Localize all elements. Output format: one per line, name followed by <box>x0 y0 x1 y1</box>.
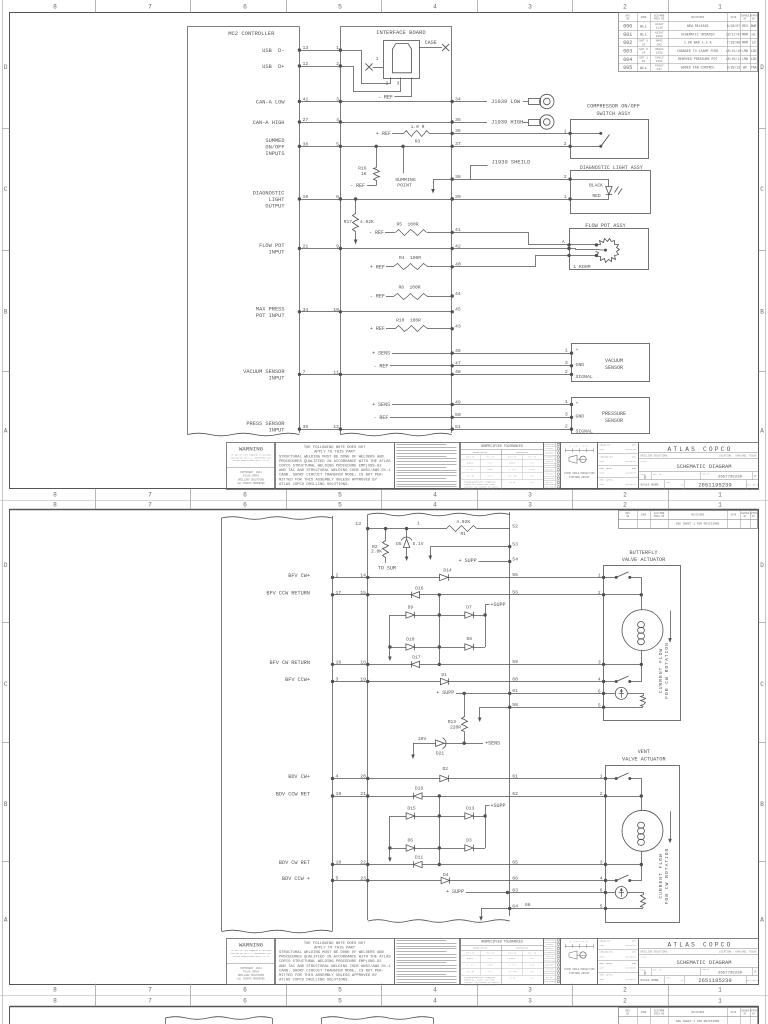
wire to vent pin 3 <box>510 864 606 866</box>
MC2 controller sheet 3 torn box <box>165 1017 273 1024</box>
wire to butterfly pin 5 <box>510 707 604 709</box>
svg-text:B: B <box>4 801 8 808</box>
company title block <box>638 443 758 490</box>
svg-text:.XX .03: .XX .03 <box>508 474 517 477</box>
svg-text:BUTTERFLY: BUTTERFLY <box>629 550 658 556</box>
wire to vent pin 6 <box>510 892 606 894</box>
svg-text:+ REF: + REF <box>370 326 385 332</box>
svg-text:5: 5 <box>338 501 342 508</box>
svg-text:45084: 45084 <box>655 48 664 51</box>
svg-text:NPS: NPS <box>632 455 637 458</box>
svg-text:DWR: DWR <box>751 24 757 28</box>
svg-text:LSD: LSD <box>751 57 757 61</box>
svg-text:ZONE: ZONE <box>641 16 647 19</box>
svg-text:7: 7 <box>148 491 152 498</box>
svg-text:3: 3 <box>336 96 339 102</box>
svg-text:1: 1 <box>565 399 568 405</box>
svg-text:MAX PRESS: MAX PRESS <box>256 306 285 312</box>
svg-text:EXPORT REGULATIONS APPLY TO IT: EXPORT REGULATIONS APPLY TO IT <box>233 459 270 462</box>
svg-text:.X 0.1: .X 0.1 <box>508 964 517 967</box>
svg-text:+ REF: + REF <box>370 264 385 270</box>
revision table sheet 3 <box>619 1008 758 1024</box>
svg-text:10/25/11: 10/25/11 <box>726 57 741 61</box>
characteristic symbols column <box>543 442 561 489</box>
wire MC2 pin 35 to interface pin 12 <box>298 424 342 431</box>
svg-text:SCHEMATIC DIAGRAM: SCHEMATIC DIAGRAM <box>677 960 732 966</box>
svg-text:INPUT: INPUT <box>269 249 285 255</box>
svg-text:R10 100R: R10 100R <box>396 317 421 323</box>
svg-text:1: 1 <box>417 521 420 526</box>
svg-text:APPLY TO THIS PART: APPLY TO THIS PART <box>314 451 356 455</box>
wire pin 2 vent <box>606 794 644 797</box>
wire to butterfly pin 1 <box>510 577 604 579</box>
svg-text:22: 22 <box>360 859 366 865</box>
wire MC2 pin 10 to interface pin 6 <box>298 194 342 201</box>
svg-text:CANB. SHORT CIRCUIT TRANSFER M: CANB. SHORT CIRCUIT TRANSFER MODE, IS NO… <box>279 969 384 973</box>
wire through interface board y=374 <box>340 373 454 376</box>
svg-text:ENG. APPVL.: ENG. APPVL. <box>600 962 614 965</box>
svg-text:DATE: DATE <box>731 1011 737 1014</box>
svg-text:COMPRESSOR ON/OFF: COMPRESSOR ON/OFF <box>587 103 640 109</box>
svg-text:58: 58 <box>512 702 518 708</box>
proprietary statement block <box>395 443 461 490</box>
svg-text:2: 2 <box>336 572 339 578</box>
svg-text:OUTPUT: OUTPUT <box>265 203 284 209</box>
svg-text:7: 7 <box>148 986 152 993</box>
svg-text:J1939 SHEILD: J1939 SHEILD <box>492 160 531 166</box>
svg-text:PROFILE: PROFILE <box>546 461 553 463</box>
svg-text:3: 3 <box>528 3 532 10</box>
svg-text:45: 45 <box>455 307 461 313</box>
svg-text:D7: D7 <box>466 604 472 610</box>
svg-text:2651195239: 2651195239 <box>698 481 732 488</box>
wire J1939 HIGH <box>452 119 523 125</box>
svg-text:P: P <box>755 474 757 478</box>
svg-text:POT INPUT: POT INPUT <box>256 313 285 319</box>
svg-text:INPUT: INPUT <box>269 375 285 381</box>
svg-text:LIGHT: LIGHT <box>269 197 285 203</box>
svg-text:01/03/07: 01/03/07 <box>625 472 636 475</box>
wire through interface board y=146 <box>340 145 454 148</box>
svg-text:ATLAS COPCO: ATLAS COPCO <box>667 942 732 949</box>
diode D6 and D3 row <box>388 837 485 851</box>
svg-text:042: 042 <box>657 43 662 46</box>
switch upper vent <box>606 773 642 797</box>
LED D20 <box>606 179 622 199</box>
wire pin 5 vent <box>606 908 644 910</box>
svg-text:REV: REV <box>742 24 748 28</box>
wire row 48 to vacuum sensor pin 2 <box>452 369 573 376</box>
diode D2 <box>368 766 510 782</box>
diode D11 <box>368 855 510 868</box>
svg-text:5.1V: 5.1V <box>413 541 424 547</box>
svg-text:DIM LIN: DIM LIN <box>466 456 474 459</box>
svg-text:DATE: DATE <box>600 448 606 451</box>
svg-text:FOR CW ROTATION: FOR CW ROTATION <box>664 642 670 699</box>
svg-text:18: 18 <box>360 659 366 665</box>
wire to butterfly pin 6 <box>510 693 604 695</box>
svg-text:CAN-A LOW: CAN-A LOW <box>256 99 285 105</box>
diode D16 <box>368 585 510 598</box>
svg-text:5: 5 <box>338 986 342 993</box>
svg-text:2: 2 <box>598 590 601 596</box>
svg-text:7: 7 <box>148 501 152 508</box>
svg-text:UNSPECIFIED TOLERANCES: UNSPECIFIED TOLERANCES <box>481 444 523 448</box>
svg-text:.X 0.1: .X 0.1 <box>508 468 517 471</box>
svg-text:.XX 0P: .XX 0P <box>508 481 516 484</box>
signature block <box>598 939 639 985</box>
wire flow pot B (row 40) <box>453 254 599 267</box>
flow pot assy box <box>562 223 649 270</box>
vent box <box>600 749 680 922</box>
sheet 3 zone labels top <box>53 995 722 1006</box>
svg-text:MITTED FOR THIS ASSEMBLY UNLES: MITTED FOR THIS ASSEMBLY UNLESS APPROVED… <box>279 478 378 482</box>
current flow label vent <box>658 848 670 905</box>
svg-text:4: 4 <box>598 677 601 683</box>
unspecified tolerances block <box>460 939 544 987</box>
svg-text:LOCATION: GARLAND, TEXAS: LOCATION: GARLAND, TEXAS <box>719 950 757 953</box>
svg-text:LMB: LMB <box>742 49 748 53</box>
+SENS wire row 49 <box>372 402 452 408</box>
svg-text:2: 2 <box>623 986 627 993</box>
diode D18 <box>368 786 510 800</box>
svg-text:SENSOR: SENSOR <box>605 418 623 424</box>
svg-text:WARNING: WARNING <box>239 446 264 453</box>
svg-text:62: 62 <box>512 791 518 797</box>
svg-text:6: 6 <box>336 194 339 200</box>
svg-text:0.06: 0.06 <box>530 964 536 967</box>
page boundary line 2 <box>0 995 768 997</box>
switch upper butterfly <box>604 572 642 595</box>
svg-text:5: 5 <box>338 3 342 10</box>
svg-text:PROJ NO: PROJ NO <box>654 515 665 518</box>
svg-text:- REF: - REF <box>350 183 365 189</box>
svg-text:+ SUPP: + SUPP <box>436 690 454 696</box>
svg-text:CONCENTRICITY: CONCENTRICITY <box>543 973 555 975</box>
motor coil vent <box>622 796 663 865</box>
vertical tie and arrow upper network <box>388 595 485 665</box>
svg-text:FOR CW ROTATION: FOR CW ROTATION <box>664 848 670 905</box>
svg-text:DIM LIN: DIM LIN <box>466 951 474 954</box>
svg-text:8: 8 <box>53 501 57 508</box>
wire MC2 pin 4 to interface pin 20 sheet2 <box>331 773 370 780</box>
third angle projection block <box>561 939 598 985</box>
svg-text:MC2 CONTROLLER: MC2 CONTROLLER <box>228 30 275 37</box>
svg-text:FINISHED WEIGHT: FINISHED WEIGHT <box>569 476 590 479</box>
sheet 2 zone labels top <box>53 500 722 509</box>
resistor R17 4.02K <box>344 197 374 244</box>
svg-text:SHT 1: SHT 1 <box>639 56 648 59</box>
wire row 53 with arrow <box>429 545 512 560</box>
ring terminal J1939 LOW <box>523 94 554 108</box>
svg-text:COPYRIGHT 2014: COPYRIGHT 2014 <box>240 967 262 970</box>
svg-text:047: 047 <box>657 68 662 71</box>
svg-text:DRAWN BY: DRAWN BY <box>600 444 611 447</box>
svg-text:C: C <box>760 186 764 193</box>
svg-text:005: 005 <box>623 65 632 71</box>
svg-text:ALL RIGHTS RESERVED: ALL RIGHTS RESERVED <box>237 978 265 981</box>
svg-text:21: 21 <box>360 791 366 797</box>
interface right edge pins sheet2 upper <box>512 523 518 708</box>
svg-text:1K: 1K <box>361 171 367 177</box>
svg-text:10: 10 <box>333 307 339 313</box>
wire pin 3 butterfly <box>604 663 643 666</box>
svg-text:ANGLE: ANGLE <box>509 461 516 464</box>
+SUPP stub lower network <box>486 803 506 817</box>
svg-text:41287: 41287 <box>655 23 664 26</box>
svg-text:.XX .03: .XX .03 <box>508 970 517 973</box>
svg-text:CURRENT FLOW: CURRENT FLOW <box>658 648 664 693</box>
wire through interface board y=248 <box>340 247 454 250</box>
svg-text:D10: D10 <box>406 637 415 643</box>
svg-text:NEW RELEASE: NEW RELEASE <box>687 24 709 28</box>
ring terminal J1939 HIGH <box>523 115 554 129</box>
svg-text:1298: 1298 <box>656 35 663 38</box>
svg-text:CANB. SHORT CIRCUIT TRANSFER M: CANB. SHORT CIRCUIT TRANSFER MODE, IS NO… <box>279 474 384 478</box>
interface right edge pins sheet2 lower <box>512 773 518 909</box>
svg-text:01/03/07: 01/03/07 <box>625 483 636 486</box>
svg-text:INPUT: INPUT <box>269 427 285 433</box>
svg-text:3: 3 <box>600 860 603 866</box>
svg-text:1: 1 <box>718 501 722 508</box>
svg-text:DRILLING SOLUTIONS: DRILLING SOLUTIONS <box>640 455 668 458</box>
case no-connect X <box>419 40 449 51</box>
svg-text:C4013: C4013 <box>655 56 664 59</box>
+SUPP wire row 54 <box>459 558 512 564</box>
svg-text:4: 4 <box>336 773 339 779</box>
svg-text:REVISIONS: REVISIONS <box>691 16 704 19</box>
svg-text:54: 54 <box>512 556 518 562</box>
interface board U2 <box>340 27 451 436</box>
svg-text:GND: GND <box>576 362 585 368</box>
svg-text:4: 4 <box>433 997 437 1004</box>
svg-text:47: 47 <box>455 361 461 367</box>
svg-text:DATE: DATE <box>600 471 606 474</box>
proprietary statement block <box>395 939 461 985</box>
svg-text:CAN-A HIGH: CAN-A HIGH <box>253 120 285 126</box>
svg-text:INPUTS: INPUTS <box>265 151 284 157</box>
svg-text:INTERFACE BOARD: INTERFACE BOARD <box>376 29 426 36</box>
svg-text:POSITION: POSITION <box>546 474 554 476</box>
svg-text:BLACK: BLACK <box>589 183 603 189</box>
svg-text:STRUCTURAL WELDING MUST BE DON: STRUCTURAL WELDING MUST BE DONE OF WELDE… <box>279 951 385 955</box>
summing point arrow <box>431 179 452 193</box>
general notes block <box>276 443 395 490</box>
svg-text:+ SENS: + SENS <box>372 351 390 357</box>
svg-text:DATE: DATE <box>600 483 606 486</box>
svg-text:A: A <box>4 427 8 434</box>
svg-text:- REF: - REF <box>373 415 388 421</box>
diode D1 <box>368 672 510 685</box>
wire row 47 to vacuum sensor pin 3 <box>451 360 574 367</box>
wire MC2 pin 27 to interface pin 4 <box>298 117 342 124</box>
svg-text:C: C <box>4 186 8 193</box>
svg-text:TO SUM: TO SUM <box>378 565 396 571</box>
svg-text:THIRD ANGLE PROJECTION: THIRD ANGLE PROJECTION <box>564 472 595 475</box>
svg-text:7: 7 <box>148 997 152 1004</box>
svg-text:INTERPRET DWG PER ASME Y14.5: INTERPRET DWG PER ASME Y14.5 <box>464 488 498 491</box>
svg-text:3: 3 <box>565 412 568 418</box>
svg-text:MRM: MRM <box>742 32 748 36</box>
svg-text:34: 34 <box>455 96 461 102</box>
svg-text:REF NO: REF NO <box>653 968 662 971</box>
feedback resistor butterfly <box>641 696 646 707</box>
signature block <box>598 443 639 490</box>
svg-text:001: 001 <box>623 32 632 38</box>
svg-text:SCHEMATIC DIAGRAM: SCHEMATIC DIAGRAM <box>677 464 732 470</box>
svg-text:.X 0.1: .X 0.1 <box>466 964 475 967</box>
+SENS wire row 46 <box>372 351 452 357</box>
svg-text:1: 1 <box>564 195 567 200</box>
svg-text:2651195239: 2651195239 <box>698 977 732 984</box>
svg-text:D11: D11 <box>415 855 424 861</box>
svg-text:LMB: LMB <box>742 57 748 61</box>
feedback resistor vent <box>641 895 646 908</box>
svg-text:3: 3 <box>397 80 400 86</box>
characteristic symbols column <box>543 938 561 985</box>
svg-text:2: 2 <box>564 175 567 180</box>
svg-text:SHT 1: SHT 1 <box>639 40 648 43</box>
svg-text:ALL: ALL <box>640 34 648 38</box>
svg-text:USB D-: USB D- <box>262 48 284 54</box>
svg-text:RUN OUT: RUN OUT <box>546 977 553 979</box>
svg-text:ATLAS COPCO: ATLAS COPCO <box>243 475 259 478</box>
svg-text:FABRICATION: FABRICATION <box>473 947 488 950</box>
resistor R10 100R <box>370 317 454 332</box>
svg-text:J1939 LOW: J1939 LOW <box>491 99 521 105</box>
svg-text:THE FOLLOWING NOTE DOES NOT: THE FOLLOWING NOTE DOES NOT <box>304 446 366 450</box>
svg-text:1.0R WAS 1.2 K: 1.0R WAS 1.2 K <box>684 41 712 45</box>
interface board sheet 3 torn box <box>322 1017 434 1024</box>
svg-text:01/03/07: 01/03/07 <box>625 955 636 958</box>
svg-text:LD: LD <box>752 41 756 45</box>
wire MC2 pin 16 to interface pin 18 sheet2 <box>331 659 370 666</box>
wire to vent pin 1 <box>510 778 606 780</box>
svg-text:C: C <box>760 681 764 688</box>
svg-text:SH 1 OF 3: SH 1 OF 3 <box>746 483 759 486</box>
svg-text:ANGLE: ANGLE <box>467 461 474 464</box>
third angle projection block <box>561 443 598 490</box>
zener D5 5.1V <box>396 529 424 561</box>
svg-text:P: P <box>755 970 757 974</box>
svg-text:COPCO STRUCTURAL WELDING PROCE: COPCO STRUCTURAL WELDING PROCEDURE EMP(U… <box>279 959 382 964</box>
svg-text:46: 46 <box>455 348 461 354</box>
svg-text:+ SUPP: + SUPP <box>446 889 464 895</box>
sheet 1 zone labels bottom <box>2 64 766 500</box>
resistor R1 4.02K <box>355 519 509 537</box>
svg-text:D15: D15 <box>407 805 416 811</box>
svg-text:6: 6 <box>598 689 601 695</box>
svg-text:D3: D3 <box>466 837 472 843</box>
svg-text:ATLAS COPCO DRILLING SOLUTIONS: ATLAS COPCO DRILLING SOLUTIONS. <box>279 979 350 983</box>
svg-text:10/21/10: 10/21/10 <box>726 49 741 53</box>
svg-text:PROJ NO: PROJ NO <box>654 1012 665 1015</box>
svg-text:R17: R17 <box>344 219 353 225</box>
svg-text:RUN OUT: RUN OUT <box>546 482 553 484</box>
svg-text:13: 13 <box>355 521 361 527</box>
warning block <box>227 939 276 985</box>
svg-text:ROUNDNESS: ROUNDNESS <box>545 948 554 950</box>
MC2 sheet2 pin labels <box>266 573 310 882</box>
svg-text:TOL LIN: TOL LIN <box>528 951 536 954</box>
svg-text:EXPORT REGULATIONS APPLY TO IT: EXPORT REGULATIONS APPLY TO IT <box>233 955 270 958</box>
svg-text:DATE: DATE <box>731 514 737 517</box>
svg-text:10/17/07: 10/17/07 <box>726 32 741 36</box>
svg-text:GND: GND <box>576 413 585 419</box>
wire MC2 pin 13 to interface pin 1 <box>298 45 342 52</box>
svg-text:+SENS: +SENS <box>485 741 500 747</box>
svg-text:DIM LIN: DIM LIN <box>508 951 516 954</box>
svg-text:LSD: LSD <box>751 49 757 53</box>
svg-text:1: 1 <box>336 45 339 51</box>
svg-text:VALVE ACTUATOR: VALVE ACTUATOR <box>622 756 666 762</box>
svg-text:003: 003 <box>623 49 632 55</box>
svg-text:0.06: 0.06 <box>488 468 494 471</box>
resistor R13 220R <box>448 693 468 743</box>
net label 68 <box>525 902 531 908</box>
current source vent <box>606 887 644 899</box>
svg-text:D13: D13 <box>466 805 475 811</box>
svg-text:1: 1 <box>718 3 722 10</box>
svg-text:19: 19 <box>336 791 342 797</box>
svg-text:BDV CW+: BDV CW+ <box>288 774 310 780</box>
svg-text:01/03/07: 01/03/07 <box>625 448 636 451</box>
svg-text:CYLINDRICITY: CYLINDRICITY <box>544 457 556 459</box>
svg-text:CYLINDRICITY: CYLINDRICITY <box>544 952 556 954</box>
svg-text:POINT: POINT <box>397 182 412 188</box>
svg-text:SEE SHEET 1 FOR REVISIONS: SEE SHEET 1 FOR REVISIONS <box>676 1020 720 1023</box>
svg-text:NPS: NPS <box>632 444 637 447</box>
svg-text:39: 39 <box>455 194 461 200</box>
svg-text:BDV CCW +: BDV CCW + <box>282 876 310 882</box>
svg-text:17: 17 <box>336 590 342 596</box>
svg-text:1: 1 <box>376 56 379 62</box>
svg-text:DATE: DATE <box>600 978 606 981</box>
svg-text:44: 44 <box>455 291 461 297</box>
svg-text:+SUPP: +SUPP <box>491 803 506 809</box>
svg-text:4: 4 <box>336 117 339 123</box>
svg-text:USB D+: USB D+ <box>262 64 284 70</box>
svg-text:BFV CCW+: BFV CCW+ <box>285 677 310 683</box>
svg-text:CONCENTRICITY: CONCENTRICITY <box>543 478 555 480</box>
svg-text:REVISIONS: REVISIONS <box>691 514 704 517</box>
svg-text:ADDED FAN CONTROL: ADDED FAN CONTROL <box>681 66 715 70</box>
svg-text:APPLY TO THIS PART: APPLY TO THIS PART <box>314 946 356 950</box>
svg-text:6: 6 <box>243 501 247 508</box>
resistor R8 100R <box>370 285 454 300</box>
svg-text:12: 12 <box>303 61 309 67</box>
wire MC2 pin 21 to interface pin 9 <box>298 243 342 250</box>
svg-text:D5: D5 <box>396 541 402 547</box>
resistor R5 100R <box>369 222 454 236</box>
svg-text:DRILLING SOLUTIONS: DRILLING SOLUTIONS <box>640 950 668 953</box>
svg-text:2657795239: 2657795239 <box>718 476 743 480</box>
sheet 1 zone labels top <box>53 0 722 13</box>
svg-text:2: 2 <box>565 423 568 429</box>
svg-text:NPS: NPS <box>632 939 637 942</box>
svg-text:49: 49 <box>455 399 461 405</box>
svg-text:MRM: MRM <box>742 41 748 45</box>
svg-text:DATE: DATE <box>600 460 606 463</box>
svg-text:2: 2 <box>565 369 568 375</box>
potentiometer 1 KOHM <box>596 239 620 263</box>
svg-text:0.06: 0.06 <box>488 964 494 967</box>
svg-text:DRAWN BY: DRAWN BY <box>600 939 611 942</box>
svg-text:2: 2 <box>623 491 627 498</box>
svg-text:ATLAS COPCO DRILLING SOLUTIONS: ATLAS COPCO DRILLING SOLUTIONS. <box>279 483 350 487</box>
svg-text:4: 4 <box>433 491 437 498</box>
resistor R3 1.0R <box>376 124 452 144</box>
